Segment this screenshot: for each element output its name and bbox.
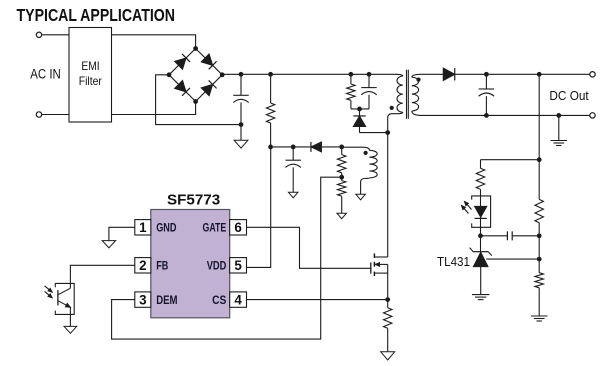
svg-text:1: 1 [139,220,147,235]
svg-text:AC IN: AC IN [30,67,61,82]
svg-text:6: 6 [234,220,241,235]
svg-text:GND: GND [156,222,176,235]
svg-text:FB: FB [156,260,168,273]
svg-text:GATE: GATE [203,222,227,235]
svg-text:VDD: VDD [207,260,227,273]
svg-text:2: 2 [139,258,146,273]
svg-text:4: 4 [234,292,242,307]
svg-text:TYPICAL APPLICATION: TYPICAL APPLICATION [17,5,176,25]
svg-text:3: 3 [139,292,146,307]
svg-text:5: 5 [234,258,242,273]
svg-text:TL431: TL431 [437,254,470,269]
svg-text:DEM: DEM [156,294,177,307]
svg-text:Filter: Filter [79,74,102,88]
svg-text:DC Out: DC Out [549,88,589,103]
svg-text:CS: CS [212,294,226,307]
svg-text:EMI: EMI [81,59,99,73]
svg-text:SF5773: SF5773 [167,193,220,209]
